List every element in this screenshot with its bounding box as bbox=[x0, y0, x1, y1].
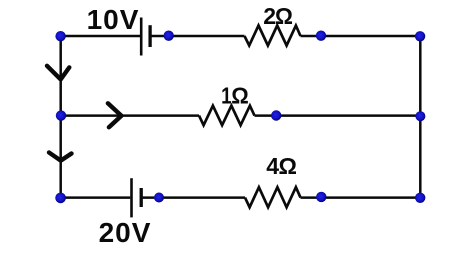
svg-text:1: 1 bbox=[221, 84, 232, 109]
svg-text:10V: 10V bbox=[87, 4, 140, 35]
svg-text:4: 4 bbox=[266, 153, 279, 179]
svg-text:20V: 20V bbox=[99, 217, 152, 248]
svg-text:Ω: Ω bbox=[275, 3, 293, 29]
svg-text:Ω: Ω bbox=[231, 83, 249, 109]
svg-text:Ω: Ω bbox=[279, 153, 297, 179]
